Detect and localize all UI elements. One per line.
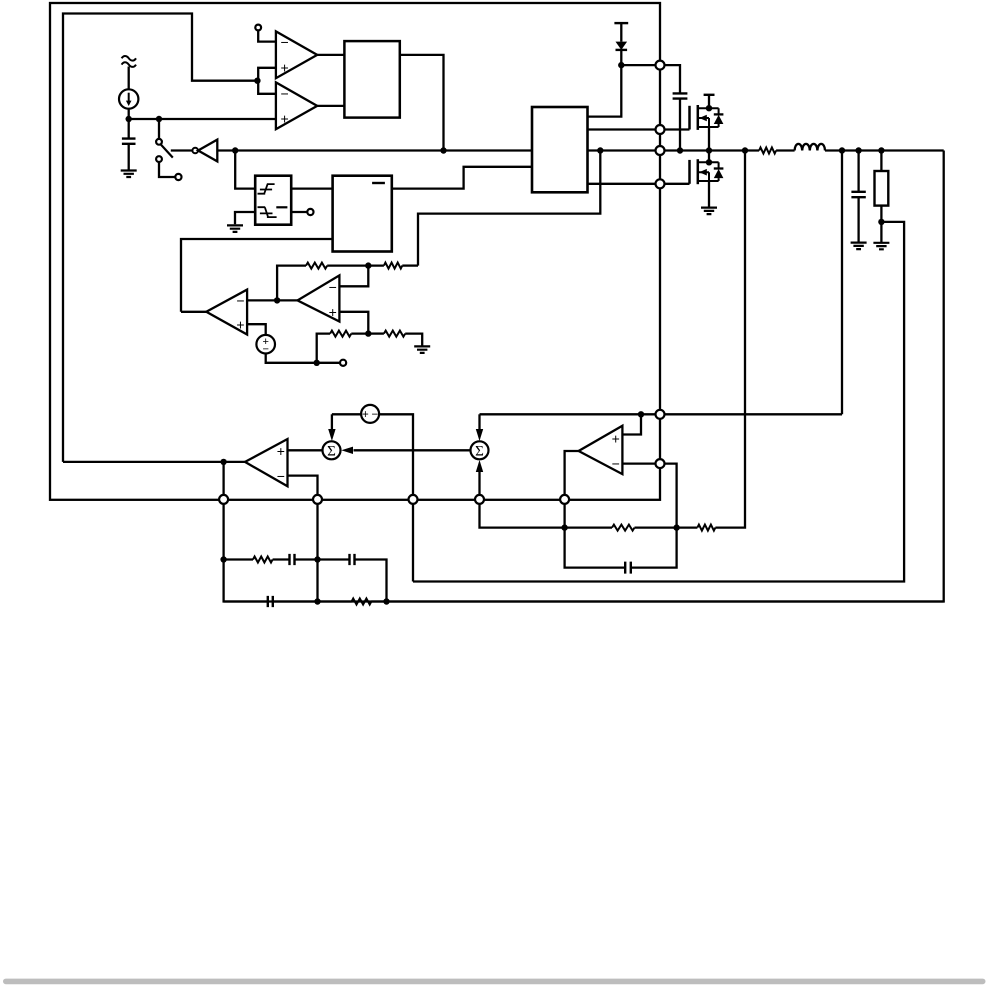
arrow into Sigma2 bottom	[476, 460, 483, 495]
wire: C1 to ground	[128, 144, 130, 171]
op-amp A (ramp integrator)	[206, 290, 247, 335]
wire: driver high gate	[588, 128, 690, 130]
terminal TP4	[340, 360, 346, 366]
node V (comp mid)	[314, 556, 320, 562]
node K (output cap tap)	[855, 147, 861, 153]
wire: switch to buffer bubble	[171, 149, 193, 151]
wire: node SW down to switch pole	[158, 119, 160, 139]
capacitor C2 (bootstrap)	[673, 93, 688, 98]
resistor R1 (sense)	[759, 148, 776, 154]
wire: tildes to current source	[128, 67, 130, 90]
wire: C3 to ground	[857, 197, 859, 242]
wire: EA output to node R	[63, 461, 245, 463]
node VOUT	[878, 147, 884, 153]
wire: R3 to node N	[327, 264, 384, 266]
transistor Q1 body diode	[714, 108, 724, 127]
wire: comp top branch	[224, 560, 387, 602]
wire: R5 to corner down	[317, 334, 369, 363]
limiter glyph top	[258, 184, 275, 194]
ground (C1)	[121, 171, 137, 178]
wire: node C down into limiter box	[235, 151, 255, 189]
transistor Q1 stubs	[698, 108, 719, 127]
ground (R6)	[414, 346, 430, 353]
resistor R6	[384, 331, 405, 337]
node J (post-inductor sense)	[839, 147, 845, 153]
wire: B+ input to node O	[339, 312, 368, 334]
supply terminal T1	[614, 22, 628, 24]
footer divider bar	[3, 979, 986, 985]
wire: driver low gate	[588, 183, 690, 185]
node S (CSA out at filter)	[561, 524, 567, 530]
pin P11 (csa out)	[560, 495, 569, 504]
wire: node F down and left to ramp resistors	[418, 151, 600, 266]
buffer U2 inversion bubble	[192, 148, 198, 154]
resistor R9	[253, 557, 273, 563]
wire: R4 to ramp line corner	[402, 264, 418, 266]
wire: comp bottom branch	[224, 560, 944, 602]
transistor Q1 source arrow	[699, 115, 707, 122]
transistor Q1 gate bar	[688, 106, 691, 130]
svg-text:+: +	[329, 304, 337, 320]
wire: L1 to output node	[825, 149, 944, 151]
svg-text:+: +	[277, 443, 285, 459]
limiter bottom minus label	[276, 206, 287, 208]
capacitor C1	[122, 139, 136, 144]
pin P4 (low gate)	[656, 179, 665, 188]
voltage source V1	[256, 335, 275, 356]
wire: Sigma2 output to Sigma1 (arrow left)	[341, 447, 470, 454]
resistor R2 (load)	[875, 171, 889, 206]
wire: R2 bottom to node L	[880, 206, 882, 243]
ground (limiter)	[227, 225, 243, 232]
op-amp CMP1 (top comparator)	[276, 31, 317, 78]
node Q (op-amp D + tap)	[638, 411, 644, 417]
resistor R8	[697, 525, 715, 531]
node A (comparator input node)	[254, 78, 260, 84]
node L (R2 bottom)	[878, 219, 884, 225]
node B (ripple node)	[126, 116, 132, 122]
wire: sense filter line	[480, 151, 746, 528]
resistor R4	[384, 263, 402, 269]
wire: Q1 drain to supply terminal	[708, 95, 710, 108]
transistor Q2 channel bar	[697, 159, 700, 184]
node SW (switch node on ripple line)	[156, 116, 162, 122]
capacitor C6	[350, 554, 355, 565]
ground (Q2 source)	[701, 208, 717, 215]
wire: C4 loop	[565, 528, 677, 568]
wire: EA - input down to pin	[288, 476, 318, 500]
wire: output node down to C3	[857, 151, 859, 192]
ground (C3)	[851, 243, 867, 250]
node M (A- / B out)	[274, 297, 280, 303]
wire: logic box output to PWM line	[400, 55, 444, 151]
svg-text:−: −	[372, 409, 379, 421]
node G (Q1 drain)	[706, 105, 712, 111]
limiter box U4	[255, 176, 291, 225]
svg-text:−: −	[236, 292, 244, 308]
summer Sigma2	[471, 441, 489, 459]
IC boundary U1	[50, 3, 660, 500]
diode D1	[616, 23, 628, 65]
resistor R10	[352, 599, 372, 605]
wire: node R down through pin to comp network	[222, 462, 224, 560]
node O (B+ bias node)	[365, 330, 371, 336]
svg-text:+: +	[612, 430, 620, 446]
node E (C2 at switch line)	[677, 147, 683, 153]
wire: C2 to switch node	[679, 99, 681, 151]
transistor Q2 stubs	[698, 162, 719, 181]
node R (EA output)	[220, 459, 226, 465]
resistor R7	[612, 525, 635, 531]
node F (feedback tap at driver output)	[597, 147, 603, 153]
wire: switch throw to terminal TP2	[159, 162, 176, 177]
terminal TP1 (reference input)	[255, 25, 261, 31]
pin P9 (ref return)	[409, 495, 418, 504]
wire: main PWM line buffer to driver	[217, 149, 532, 151]
svg-text:−: −	[277, 468, 285, 484]
delay box U5	[333, 176, 392, 252]
pin P6 (sense-)	[656, 459, 665, 468]
summer Sigma1	[323, 441, 341, 459]
svg-text:−: −	[281, 86, 289, 102]
wire: current sense line into Sigma2 top	[480, 413, 843, 415]
wire: limiter to delay box	[291, 187, 332, 189]
node BOOT (diode cathode)	[618, 62, 624, 68]
supply terminal T2	[704, 94, 715, 96]
switch S1 lever	[161, 144, 173, 157]
terminal TP2	[175, 174, 181, 180]
op-amp CSA (current sense amp)	[579, 426, 623, 474]
capacitor C3 (output)	[851, 192, 865, 197]
wire: op-amp A output to apex	[181, 311, 206, 313]
node T (CSA - at filter)	[673, 524, 679, 530]
wire: node L to remote sense line	[413, 222, 904, 582]
switch S1 throw contact	[156, 156, 162, 162]
wire: Sigma1 top feed from source V2	[332, 413, 361, 415]
node W1 (comp bottom mid)	[314, 598, 320, 604]
node W2 (comp bottom right)	[383, 598, 389, 604]
wire: driver PWM output line	[588, 149, 760, 151]
capacitor C5	[290, 554, 295, 565]
wire: Q2 drain to switch node	[708, 151, 710, 163]
op-amp B (ramp buffer)	[298, 275, 340, 321]
wire: R6 to ground	[405, 334, 422, 347]
node I (current sense tap)	[742, 147, 748, 153]
arrow into Sigma1 top	[328, 414, 335, 441]
pin P2 (high gate)	[656, 125, 665, 134]
svg-text:Σ: Σ	[327, 443, 336, 459]
wire: delay box output to driver input	[392, 167, 532, 189]
resistor R3	[306, 263, 327, 269]
wire: node A to comparator inputs	[258, 68, 276, 94]
wire: CSA + input up to sense line	[622, 414, 641, 434]
node C (PWM line tap)	[232, 147, 238, 153]
node P	[314, 360, 320, 366]
wire: TP1 to comparator CMP1 inverting input	[258, 30, 276, 41]
wire: error-amp output loop (left side up and across top)	[63, 14, 257, 462]
limiter glyph bottom	[258, 207, 277, 217]
wire: CSA - input out through pin	[622, 464, 676, 528]
wire: node O to R6	[368, 332, 384, 334]
ground (R2)	[873, 243, 889, 250]
wire: boot node out through pin to C2	[621, 65, 680, 93]
svg-text:+: +	[236, 316, 244, 332]
wire: CSA output down through pin	[565, 451, 579, 528]
wire: R1 to L1	[776, 149, 795, 151]
svg-text:−: −	[329, 279, 337, 295]
svg-text:+: +	[362, 409, 369, 421]
op-amp EA (error amplifier)	[245, 439, 288, 486]
wire: op-amp A inverting input to node M	[247, 299, 297, 301]
wire: limiter output to terminal TP3	[291, 211, 307, 213]
arrow into Sigma2 top	[476, 414, 483, 441]
node D (logic output joins PWM line)	[440, 147, 446, 153]
wire: current source to node B	[128, 109, 130, 139]
current source I1	[119, 89, 138, 108]
wire: comp mid vertical	[316, 499, 318, 601]
pin P8 (feedback)	[313, 495, 322, 504]
wire: VOUT down to R2	[880, 151, 882, 172]
source V2 (offset)	[361, 405, 379, 423]
buffer U2 triangle	[198, 140, 217, 162]
pin P5 (sense+)	[656, 410, 665, 419]
pin P3 (switch)	[656, 146, 665, 155]
node U (comp left)	[220, 556, 226, 562]
transistor Q2 gate bar	[688, 160, 691, 184]
pin P10 (isense)	[475, 495, 484, 504]
wire: op-amp A output loop to delay box	[181, 239, 333, 312]
wire: V1 to node P	[266, 354, 341, 363]
wire: EA + input to Sigma1	[288, 449, 323, 451]
op-amp CMP2 (bottom comparator)	[276, 82, 317, 129]
wire: VOUT feedback right side down	[224, 151, 944, 602]
wire: boot node to driver pin	[588, 65, 622, 117]
capacitor C4	[625, 562, 631, 574]
node H (Q2 drain)	[706, 159, 712, 165]
transistor Q2 body diode	[714, 162, 724, 181]
capacitor C7	[268, 596, 273, 607]
node N (divider mid)	[365, 262, 371, 268]
svg-text:+: +	[281, 60, 289, 76]
wire: node B to CMP2 + input	[129, 118, 276, 120]
svg-text:−: −	[612, 455, 620, 471]
driver box U6	[532, 107, 588, 192]
wire: node M up to feedback resistors	[277, 266, 306, 301]
pin P1 (boot)	[656, 61, 665, 70]
switch S1 pole contact	[156, 139, 162, 145]
wire: Q2 source to ground	[708, 181, 710, 207]
terminal TP3	[307, 209, 313, 215]
svg-text:−: −	[281, 34, 289, 50]
wire: post-inductor sense down	[841, 151, 843, 415]
wire: node N down to B- input	[339, 266, 368, 287]
node SWN (switch node)	[706, 147, 712, 153]
wire: op-amp A + input to V1	[247, 324, 266, 335]
delay box minus label	[372, 182, 385, 184]
wire: CMP2 output to logic box	[317, 105, 344, 107]
inductor L1	[795, 144, 825, 151]
transistor Q2 source arrow	[699, 169, 707, 176]
wire: CMP1 output to logic box	[317, 54, 344, 56]
wire: limiter lower-left to ground	[235, 212, 255, 224]
wire: V2 right down to remote sense	[379, 414, 413, 581]
ripple source I1 tilde marks	[122, 56, 136, 67]
transistor Q1 channel bar	[697, 105, 700, 130]
pin P7 (comp out)	[219, 495, 228, 504]
wire: Q1 source to switch node	[708, 127, 710, 151]
logic box U3	[344, 41, 399, 118]
svg-text:Σ: Σ	[475, 443, 484, 459]
resistor R5	[330, 331, 351, 337]
svg-text:+: +	[281, 111, 289, 127]
